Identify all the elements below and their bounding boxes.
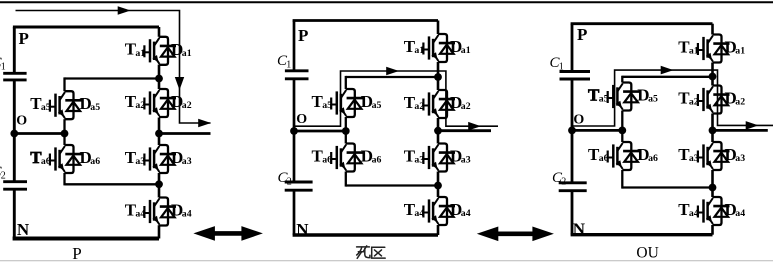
svg-text:P: P [577, 25, 587, 44]
wire: clamp branch down to Ta5 (circuit 2) [345, 76, 347, 89]
transistor Ta1 with antiparallel diode Da1 (circuit 3) [678, 35, 745, 63]
svg-text:a2: a2 [135, 100, 145, 111]
svg-text:a6: a6 [322, 155, 332, 166]
node: Ta3/Ta4 junction dot (circuit 3) [709, 184, 717, 192]
wire: clamp branch down to Ta5 (circuit 1) [63, 77, 65, 91]
wire: main rail P to Ta1 (circuit 3) [711, 24, 714, 35]
wire: clamp top link Ta5 to Ta1/Ta2 junction (circuit 1) [65, 77, 160, 79]
wire: left DC rail upper segment (circuit 2) [293, 21, 296, 71]
wire: Ta5 to O node (circuit 1) [63, 119, 65, 133]
svg-text:O: O [296, 112, 307, 127]
node: Ta3/Ta4 junction dot (circuit 1) [155, 180, 163, 188]
svg-text:P: P [72, 244, 81, 262]
wire: clamp top link Ta5 to Ta1/Ta2 junction (circuit 2) [346, 76, 438, 78]
svg-text:a5: a5 [90, 102, 100, 113]
svg-text:2: 2 [1, 170, 6, 181]
node: Ta1/Ta2 junction dot (circuit 1) [155, 75, 163, 83]
svg-text:P: P [19, 29, 29, 48]
current direction arrow at output (circuit 3) [746, 121, 759, 130]
svg-text:a1: a1 [182, 48, 192, 59]
wire: main rail Ta2 to Ta3 (circuit 2) [437, 118, 440, 144]
state-transition double arrow between circuit 1 and circuit 2 [193, 226, 263, 241]
wire: O neutral link (circuit 3) [572, 129, 622, 132]
wire: O neutral link (circuit 1) [14, 132, 64, 135]
transistor Ta6 with antiparallel diode Da6 (circuit 1) [30, 145, 100, 173]
svg-text:1: 1 [559, 61, 564, 72]
wire: P top rail (circuit 3) [571, 22, 713, 25]
transistor Ta5 with antiparallel diode Da5 (circuit 3) [588, 83, 658, 111]
wire: main rail Ta2 to Ta3 (circuit 3) [711, 114, 714, 143]
transistor Ta5 with antiparallel diode Da5 (circuit 2) [312, 89, 382, 117]
wire: Ta6 down to clamp bottom corner (circuit 3) [621, 170, 623, 189]
node: O junction dot at clamp branch (circuit 1) [61, 130, 69, 138]
current direction arrow at output (circuit 2) [468, 122, 481, 131]
wire: N bottom rail (circuit 3) [571, 233, 713, 236]
svg-text:a3: a3 [689, 153, 699, 164]
transistor Ta4 with antiparallel diode Da4 (circuit 2) [404, 197, 471, 225]
svg-text:2: 2 [287, 176, 292, 187]
wire: main rail Ta3 to Ta4 (circuit 3) [711, 170, 714, 197]
wire: N bottom rail (circuit 2) [293, 233, 438, 237]
node: output junction dot (circuit 2) [434, 127, 442, 135]
svg-text:1: 1 [1, 61, 6, 72]
wire: clamp bottom link Ta6 to Ta3/Ta4 junction (circuit 3) [622, 186, 712, 188]
wire: main rail Ta3 to Ta4 (circuit 2) [437, 172, 440, 198]
state-transition double arrow between circuit 2 and circuit 3 [477, 227, 554, 242]
svg-text:a4: a4 [135, 209, 145, 220]
wire: current path polyline O->Ta5->Ta2->output (circuit 2) [295, 71, 499, 126]
transistor Ta3 with antiparallel diode Da3 (circuit 3) [678, 142, 745, 170]
svg-text:a5: a5 [41, 102, 51, 113]
node: Ta3/Ta4 junction dot (circuit 2) [434, 182, 442, 190]
wire: Ta5 to O node (circuit 3) [621, 111, 623, 131]
node: output junction dot (circuit 3) [709, 126, 717, 134]
svg-text:a6: a6 [372, 155, 382, 166]
node: O junction dot at clamp branch (circuit 2) [342, 127, 350, 135]
transistor Ta1 with antiparallel diode Da1 (circuit 2) [404, 34, 471, 62]
wire: main rail Ta1 to Ta2 (circuit 1) [158, 65, 161, 89]
svg-text:a1: a1 [414, 45, 424, 56]
wire: left DC rail lower segment (circuit 3) [571, 191, 574, 235]
svg-text:P: P [298, 26, 308, 45]
svg-text:a3: a3 [735, 153, 745, 164]
wire: left DC rail lower segment (circuit 2) [293, 190, 296, 235]
svg-text:a4: a4 [735, 208, 745, 219]
wire: left DC rail middle segment (circuit 3) [571, 79, 574, 183]
transistor Ta1 with antiparallel diode Da1 (circuit 1) [125, 37, 192, 65]
svg-text:a2: a2 [735, 97, 745, 108]
transistor Ta2 with antiparallel diode Da2 (circuit 1) [125, 89, 192, 117]
transistor Ta6 with antiparallel diode Da6 (circuit 3) [588, 142, 658, 170]
svg-text:2: 2 [561, 176, 566, 187]
wire: main rail Ta4 to N (circuit 1) [158, 225, 161, 238]
top border rule [0, 1, 773, 3]
svg-text:a3: a3 [414, 155, 424, 166]
wire: left DC rail upper segment (circuit 3) [571, 24, 574, 72]
wire: left DC rail middle segment (circuit 1) [13, 80, 16, 182]
capacitor C2 (circuit 1, label cut at image edge) [0, 164, 27, 189]
node: O junction dot at clamp branch (circuit 3) [618, 126, 626, 134]
svg-text:1: 1 [286, 59, 291, 70]
wire: P top rail (circuit 2) [293, 19, 438, 22]
wire: current path polyline O->Ta5->Ta2->output (circuit 3) [573, 70, 773, 126]
svg-text:N: N [17, 220, 30, 239]
node O junction dot on left rail (circuit 2) [290, 127, 298, 135]
svg-text:a2: a2 [182, 100, 192, 111]
wire: output terminal (circuit 2) [438, 129, 491, 132]
svg-text:a3: a3 [182, 156, 192, 167]
current direction arrow on clamp top segment (circuit 3) [661, 66, 674, 75]
wire: output terminal (circuit 1) [159, 132, 211, 135]
wire: N bottom rail (circuit 1) [13, 237, 159, 241]
svg-text:a2: a2 [689, 97, 699, 108]
wire: O node down to Ta6 (circuit 1) [63, 134, 65, 146]
capacitor C2 (circuit 3) [552, 170, 587, 191]
wire: main rail P to Ta1 (circuit 2) [437, 21, 440, 35]
caption dead-zone (si-qu) below circuit 2 [357, 246, 386, 258]
wire: clamp branch down to Ta5 (circuit 3) [621, 76, 623, 83]
wire: O neutral link (circuit 2) [294, 130, 346, 133]
wire: clamp bottom link Ta6 to Ta3/Ta4 junction (circuit 2) [346, 184, 438, 186]
svg-text:a4: a4 [414, 208, 424, 219]
transistor Ta5 with antiparallel diode Da5 (circuit 1) [30, 91, 100, 119]
bottom faint rule [0, 260, 773, 262]
svg-text:a5: a5 [372, 100, 382, 111]
wire: left DC rail middle segment (circuit 2) [293, 79, 296, 182]
wire: clamp top link Ta5 to Ta1/Ta2 junction (circuit 3) [622, 76, 712, 78]
capacitor C1 (circuit 3) [550, 55, 591, 79]
svg-text:a1: a1 [461, 45, 471, 56]
svg-text:a5: a5 [322, 100, 332, 111]
svg-text:a4: a4 [689, 208, 699, 219]
capacitor C1 (circuit 1, label cut at image edge) [0, 55, 27, 80]
transistor Ta4 with antiparallel diode Da4 (circuit 3) [678, 197, 745, 225]
wire: main rail Ta3 to Ta4 (circuit 1) [158, 173, 161, 198]
wire: current path polyline P->output (circuit 1) [16, 11, 211, 124]
wire: output terminal (circuit 3) [713, 129, 768, 132]
svg-text:a4: a4 [182, 209, 192, 220]
svg-text:a2: a2 [414, 101, 424, 112]
svg-text:a1: a1 [135, 48, 145, 59]
svg-text:O: O [573, 112, 584, 127]
svg-text:a6: a6 [90, 156, 100, 167]
svg-text:a6: a6 [599, 153, 609, 164]
wire: Ta5 to O node (circuit 2) [345, 117, 347, 131]
svg-text:a3: a3 [135, 156, 145, 167]
transistor Ta3 with antiparallel diode Da3 (circuit 2) [404, 144, 471, 172]
wire: left DC rail upper segment (circuit 1) [13, 27, 16, 73]
svg-text:OU: OU [636, 245, 658, 262]
transistor Ta4 with antiparallel diode Da4 (circuit 1) [125, 198, 192, 226]
svg-text:a5: a5 [648, 94, 658, 105]
transistor Ta2 with antiparallel diode Da2 (circuit 2) [404, 90, 471, 118]
node: output junction dot (circuit 1) [155, 130, 163, 138]
svg-text:a3: a3 [461, 155, 471, 166]
transistor Ta6 with antiparallel diode Da6 (circuit 2) [312, 144, 382, 172]
wire: main rail Ta2 to Ta3 (circuit 1) [158, 118, 161, 146]
wire: main rail Ta1 to Ta2 (circuit 3) [711, 63, 714, 86]
current direction arrow on down segment (circuit 1) [175, 77, 184, 90]
wire: main rail Ta4 to N (circuit 3) [711, 225, 714, 235]
wire: main rail Ta4 to N (circuit 2) [437, 225, 440, 235]
node: Ta1/Ta2 junction dot (circuit 3) [709, 73, 717, 81]
current direction arrow on top segment (circuit 1) [118, 6, 131, 15]
wire: clamp bottom link Ta6 to Ta3/Ta4 junction (circuit 1) [65, 183, 160, 185]
svg-text:a1: a1 [735, 46, 745, 57]
node O junction dot on left rail (circuit 3) [568, 126, 576, 134]
svg-text:O: O [16, 113, 27, 128]
wire: O node down to Ta6 (circuit 2) [345, 131, 347, 144]
wire: left DC rail lower segment (circuit 1) [13, 189, 16, 238]
svg-text:a6: a6 [648, 153, 658, 164]
node: Ta1/Ta2 junction dot (circuit 2) [434, 73, 442, 81]
svg-text:a2: a2 [461, 101, 471, 112]
svg-text:a1: a1 [689, 46, 699, 57]
current direction arrow on clamp top segment (circuit 2) [386, 67, 399, 76]
transistor Ta2 with antiparallel diode Da2 (circuit 3) [678, 86, 745, 114]
capacitor C1 (circuit 2) [277, 53, 309, 79]
transistor Ta3 with antiparallel diode Da3 (circuit 1) [125, 145, 192, 173]
svg-text:a6: a6 [41, 156, 51, 167]
wire: P top rail (circuit 1) [13, 26, 159, 29]
wire: main rail Ta1 to Ta2 (circuit 2) [437, 62, 440, 90]
wire: Ta6 down to clamp bottom corner (circuit 1) [63, 173, 65, 185]
node O junction dot on left rail (circuit 1) [10, 130, 18, 138]
capacitor C2 (circuit 2) [278, 170, 313, 190]
svg-text:a5: a5 [599, 94, 609, 105]
wire: main rail P to Ta1 (circuit 1) [158, 27, 161, 37]
current direction arrow at output (circuit 1) [198, 119, 211, 128]
svg-text:a4: a4 [461, 208, 471, 219]
wire: O node down to Ta6 (circuit 3) [621, 130, 623, 142]
wire: Ta6 down to clamp bottom corner (circuit 2) [345, 172, 347, 187]
